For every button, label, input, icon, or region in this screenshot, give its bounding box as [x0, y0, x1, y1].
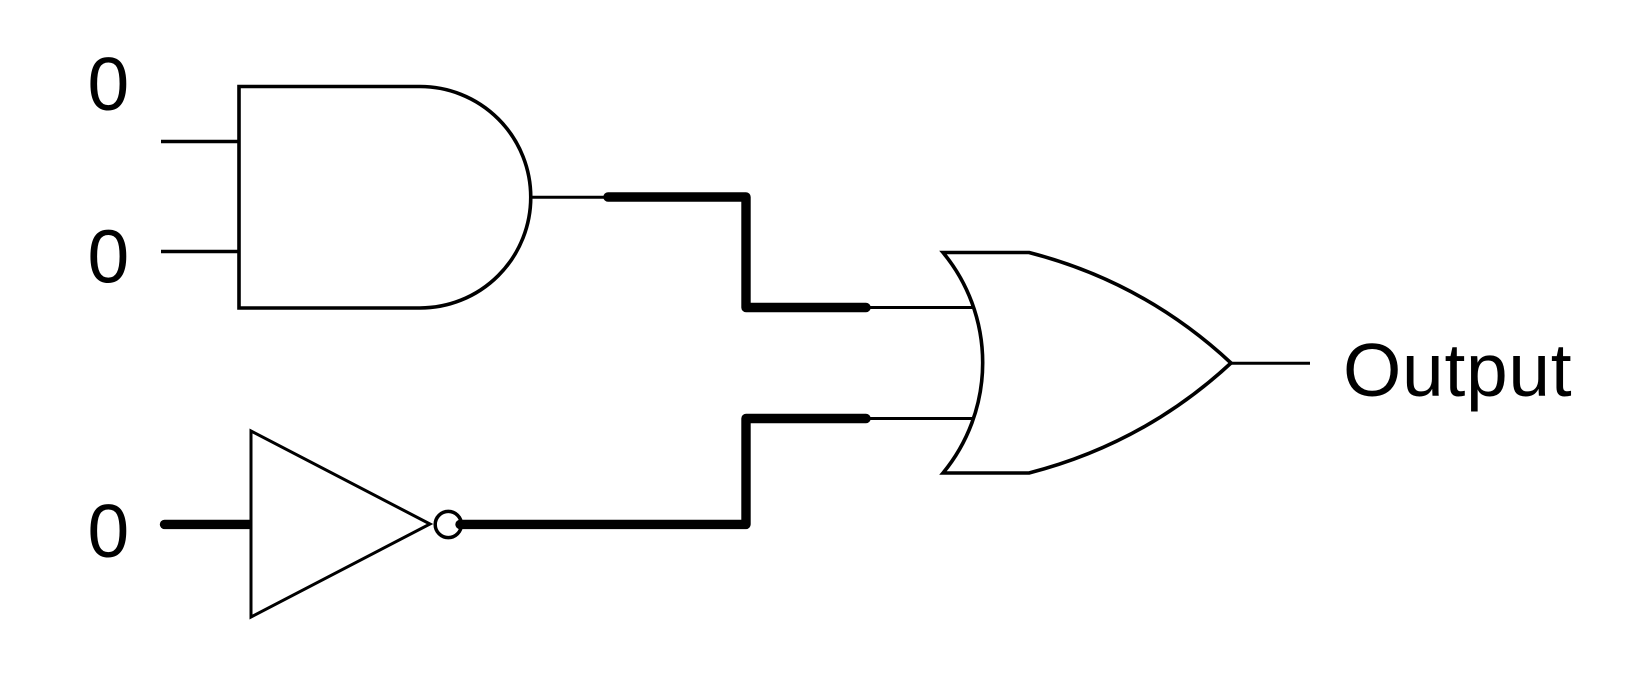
wire AND input 1: [161, 140, 239, 144]
wire NOT to OR thick: [460, 419, 866, 525]
wire AND to OR thick: [608, 197, 866, 308]
inverter bubble: [435, 511, 461, 537]
wire OR output: [1231, 362, 1310, 365]
svg-text:0: 0: [88, 42, 130, 126]
wire AND output thin: [531, 196, 608, 199]
OR gate U3: [943, 253, 1231, 474]
wire NOT input thick: [165, 520, 250, 529]
svg-text:0: 0: [88, 489, 130, 573]
wire OR input 1 thin: [866, 306, 973, 309]
AND gate U1: [239, 87, 531, 309]
wire AND input 2: [161, 250, 239, 254]
wire OR input 2 thin: [866, 417, 973, 420]
inverter NOT gate U2 triangle: [251, 431, 430, 617]
svg-text:0: 0: [88, 215, 130, 299]
svg-text:Output: Output: [1343, 328, 1572, 412]
